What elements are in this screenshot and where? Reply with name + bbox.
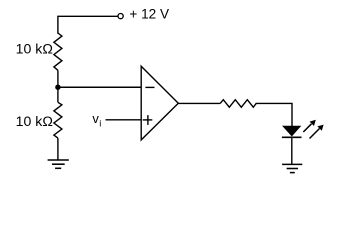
terminal +12V [118,14,123,19]
node junction dot [55,85,60,90]
wire node to opamp inverting input [58,86,141,88]
LED cathode bar [282,136,302,138]
op-amp minus sign [145,86,154,88]
ground right [282,164,302,172]
wire top rail [58,16,118,33]
svg-text:10 kΩ: 10 kΩ [16,42,53,57]
resistor R2 10k [54,102,62,138]
wire LED to ground [291,138,293,164]
wire R3 to LED [256,103,292,126]
LED D1 anode triangle [283,126,300,135]
svg-text:10 kΩ: 10 kΩ [16,114,53,129]
ground left [48,160,69,168]
resistor R3 [220,100,256,108]
svg-text:+ 12 V: + 12 V [129,7,169,22]
wire R2 to ground [57,138,59,160]
op-amp plus sign [143,115,153,125]
op-amp U1 [141,66,178,140]
wire opamp output [178,102,220,104]
wire vi to opamp noninverting input [106,119,142,121]
LED light arrow 2 [310,125,324,139]
resistor R1 10k [54,33,62,70]
wire R1 to node to R2 [57,70,59,102]
svg-text:i: i [99,118,101,128]
LED light arrow 1 [303,120,316,132]
